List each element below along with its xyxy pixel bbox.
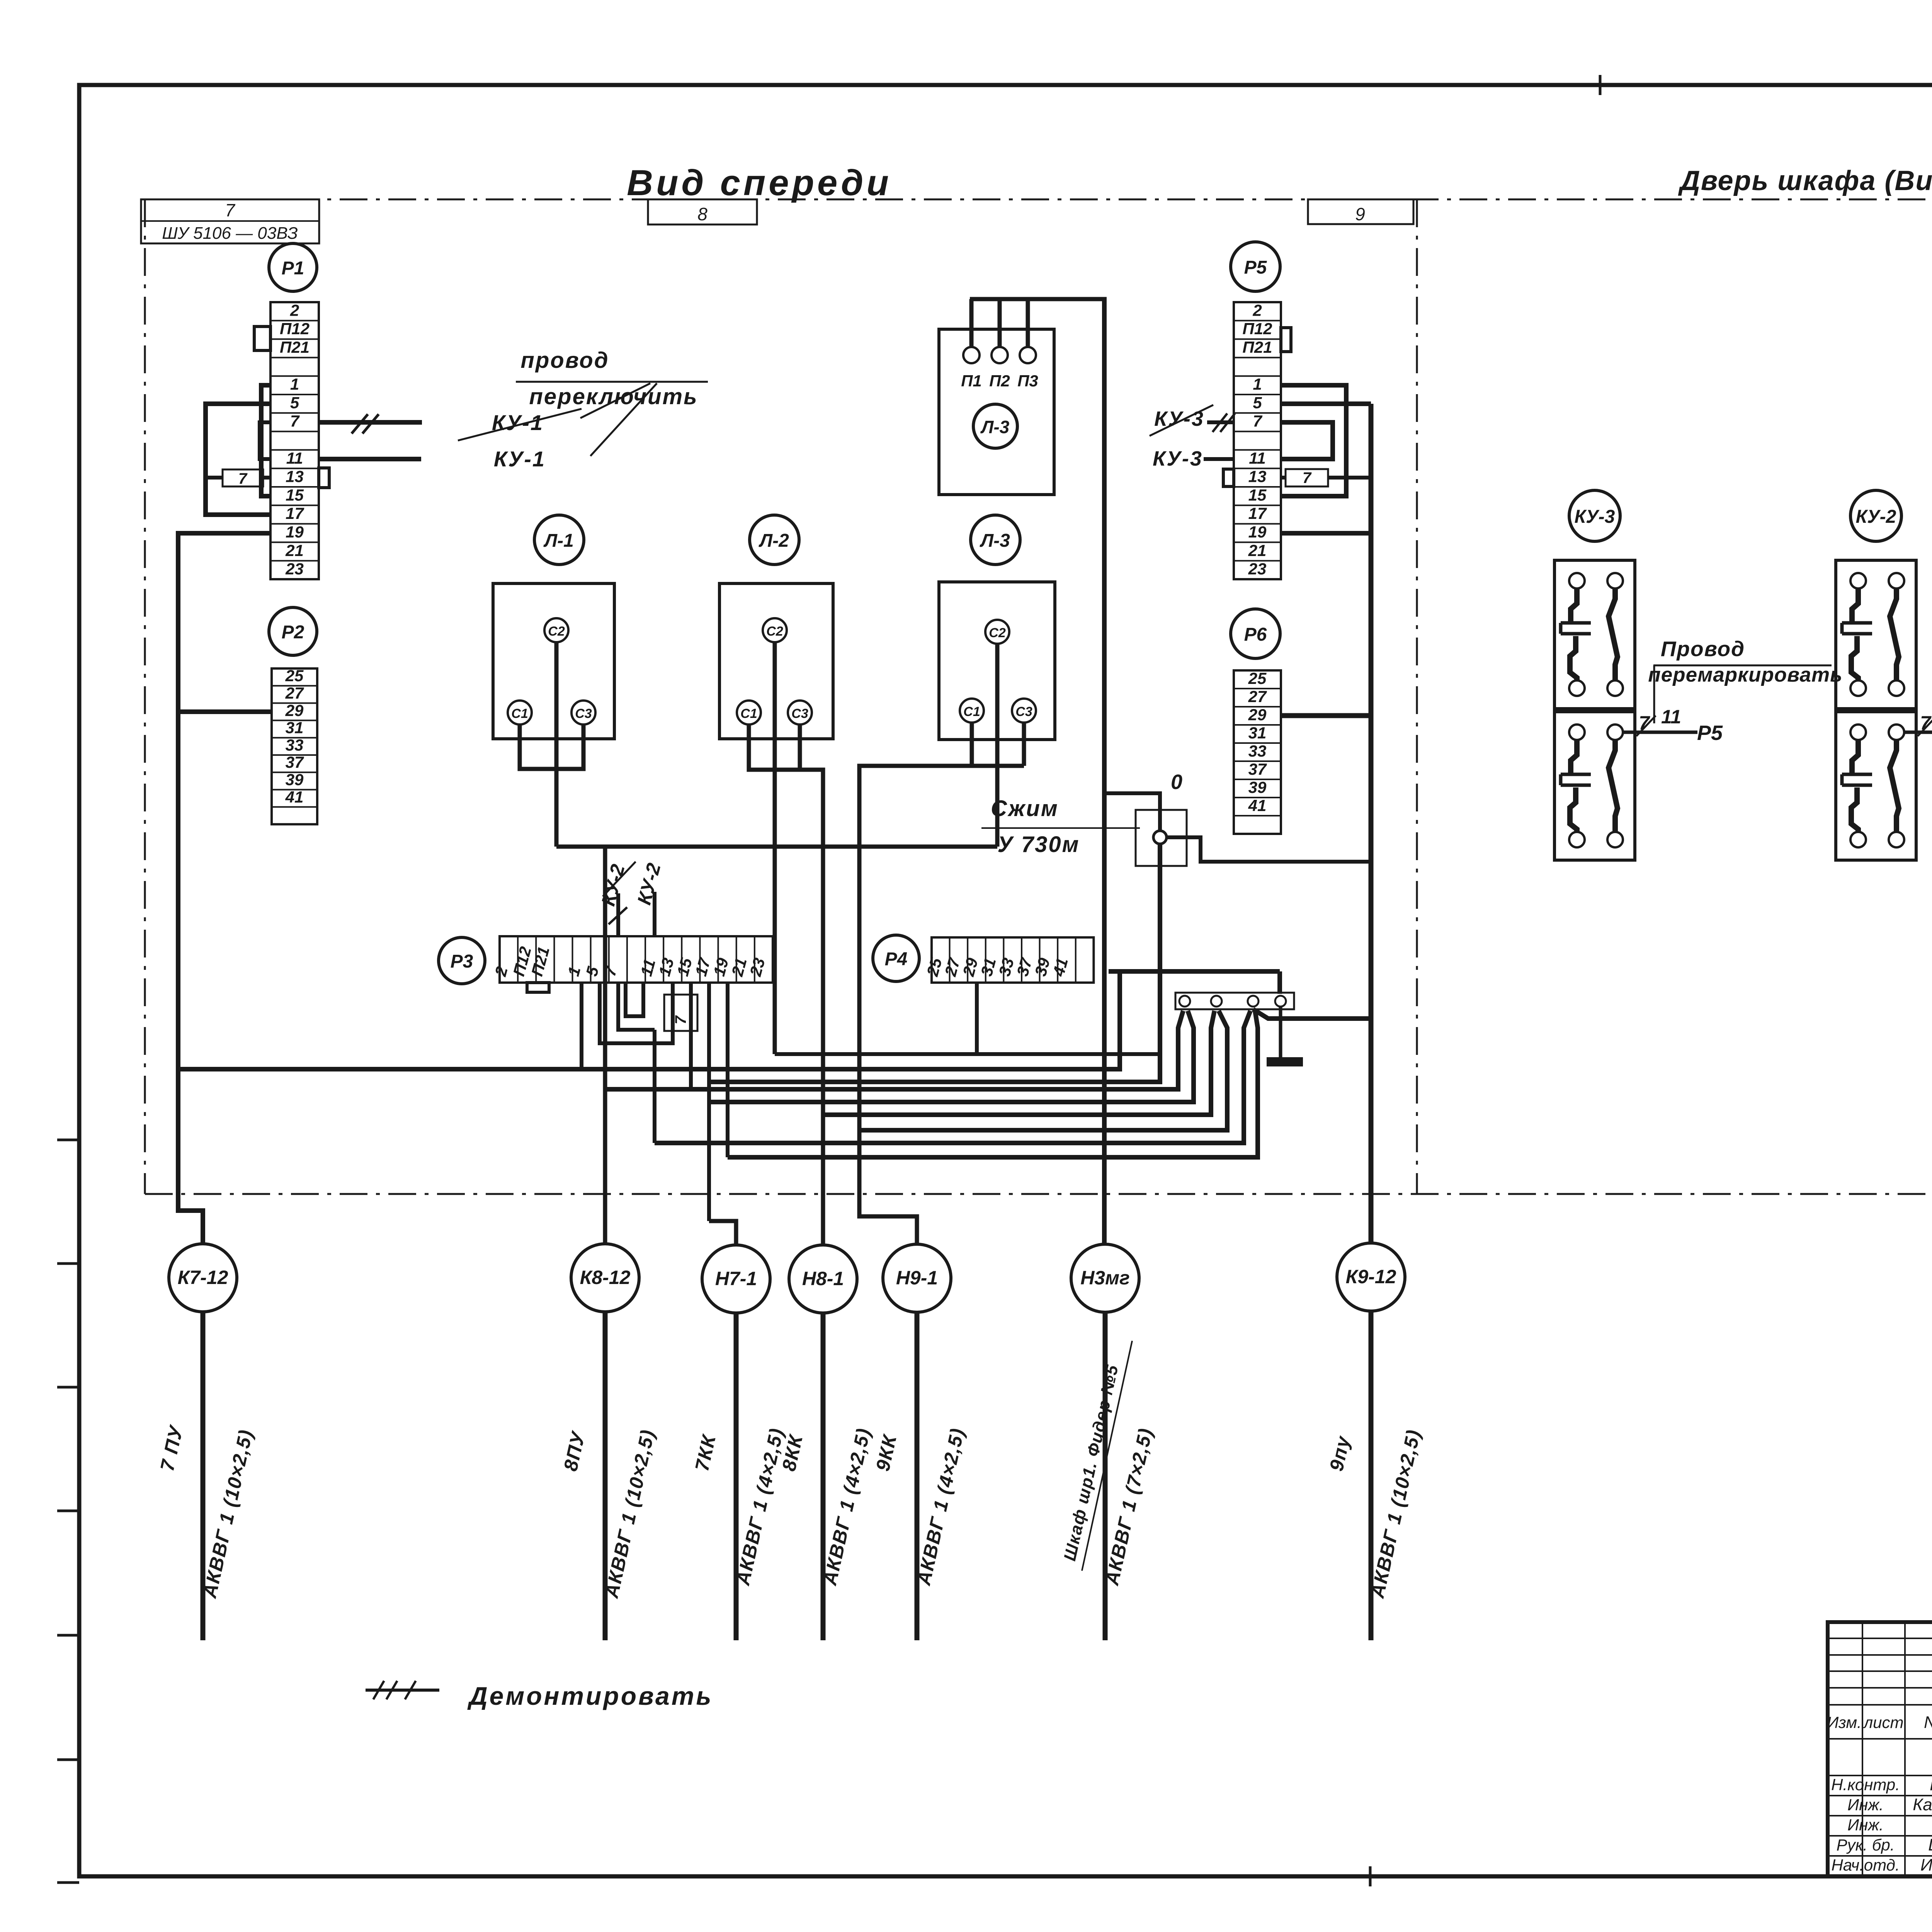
svg-text:С3: С3 (575, 706, 592, 721)
svg-text:С1: С1 (511, 706, 528, 721)
svg-text:П21: П21 (1243, 338, 1272, 356)
svg-text:11: 11 (1661, 706, 1681, 728)
svg-text:С1: С1 (963, 704, 980, 719)
svg-text:Рук. бр.: Рук. бр. (1837, 1836, 1895, 1854)
svg-text:С3: С3 (1015, 704, 1032, 719)
svg-text:Н8-1: Н8-1 (802, 1268, 844, 1289)
svg-text:Рохлин: Рохлин (1930, 1775, 1932, 1794)
svg-text:8: 8 (697, 204, 707, 224)
svg-text:Дверь шкафа (Вид сзади): Дверь шкафа (Вид сзади) (1678, 165, 1932, 196)
svg-text:Н.контр.: Н.контр. (1831, 1776, 1900, 1794)
svg-text:19: 19 (1248, 523, 1267, 541)
svg-text:Провод: Провод (1661, 637, 1745, 661)
svg-text:Р6: Р6 (1244, 624, 1267, 645)
svg-text:Инж.: Инж. (1847, 1816, 1884, 1834)
svg-text:1: 1 (290, 375, 299, 393)
svg-text:П2: П2 (989, 372, 1010, 390)
svg-text:N докум.: N докум. (1924, 1713, 1932, 1732)
svg-text:17: 17 (286, 504, 304, 522)
svg-text:41: 41 (1248, 796, 1267, 815)
svg-text:13: 13 (286, 468, 304, 486)
svg-text:КУ-3: КУ-3 (1154, 407, 1204, 430)
svg-text:С1: С1 (740, 706, 757, 721)
svg-text:Иваненко: Иваненко (1920, 1855, 1932, 1874)
svg-text:Н3мг: Н3мг (1080, 1267, 1130, 1289)
svg-text:Шульга: Шульга (1928, 1835, 1932, 1854)
svg-text:31: 31 (286, 719, 304, 737)
svg-text:П21: П21 (280, 338, 310, 356)
svg-text:21: 21 (285, 541, 304, 560)
svg-text:КУ-1: КУ-1 (494, 447, 546, 471)
svg-text:27: 27 (285, 684, 304, 702)
svg-text:2: 2 (290, 301, 299, 319)
svg-text:29: 29 (1248, 706, 1267, 724)
svg-text:Р4: Р4 (885, 949, 908, 969)
svg-text:11: 11 (286, 449, 303, 467)
svg-text:37: 37 (1248, 760, 1267, 778)
svg-text:1: 1 (1253, 375, 1262, 393)
svg-text:Р2: Р2 (282, 622, 304, 643)
svg-text:Демонтировать: Демонтировать (467, 1682, 713, 1710)
svg-text:КУ-2: КУ-2 (1856, 507, 1896, 527)
svg-text:Вид спереди: Вид спереди (627, 162, 892, 203)
svg-text:29: 29 (285, 701, 304, 719)
svg-text:31: 31 (1248, 724, 1267, 742)
svg-text:КУ-3: КУ-3 (1575, 507, 1615, 527)
svg-text:П3: П3 (1017, 372, 1038, 390)
svg-text:41: 41 (285, 788, 304, 806)
svg-text:7: 7 (225, 200, 235, 220)
svg-text:Карагозова: Карагозова (1913, 1795, 1932, 1814)
svg-text:С2: С2 (766, 624, 783, 639)
svg-text:7: 7 (238, 470, 248, 487)
svg-text:К8-12: К8-12 (580, 1267, 631, 1288)
svg-text:Л-1: Л-1 (543, 531, 574, 551)
svg-text:перемаркировать: перемаркировать (1648, 663, 1842, 686)
svg-text:19: 19 (286, 523, 304, 541)
svg-text:7: 7 (1303, 469, 1312, 486)
svg-text:С3: С3 (791, 706, 808, 721)
svg-text:33: 33 (1248, 742, 1267, 760)
svg-text:Р5: Р5 (1697, 721, 1723, 745)
svg-text:Н7-1: Н7-1 (715, 1268, 757, 1289)
svg-text:П1: П1 (961, 372, 982, 390)
svg-text:С2: С2 (989, 626, 1006, 640)
svg-text:25: 25 (1248, 669, 1267, 687)
svg-text:25: 25 (285, 667, 304, 685)
svg-text:ШУ 5106 — 03ВЗ: ШУ 5106 — 03ВЗ (162, 224, 298, 243)
svg-text:провод: провод (520, 348, 609, 373)
svg-text:лист: лист (1862, 1713, 1903, 1731)
svg-text:13: 13 (1248, 468, 1267, 486)
svg-text:У 730м: У 730м (997, 832, 1080, 857)
svg-text:2: 2 (1252, 301, 1262, 319)
svg-text:Р1: Р1 (282, 258, 304, 279)
svg-text:П12: П12 (1243, 320, 1272, 338)
svg-text:Л-2: Л-2 (759, 531, 789, 551)
svg-text:КУ-3: КУ-3 (1153, 447, 1203, 470)
svg-text:23: 23 (1248, 560, 1267, 578)
svg-text:37: 37 (286, 753, 304, 771)
svg-text:33: 33 (286, 736, 304, 754)
svg-text:Инж.: Инж. (1847, 1796, 1884, 1814)
svg-text:Изм.: Изм. (1827, 1713, 1862, 1731)
svg-text:К7-12: К7-12 (178, 1267, 228, 1288)
svg-text:К9-12: К9-12 (1346, 1266, 1396, 1287)
svg-text:С2: С2 (548, 624, 565, 639)
svg-text:0: 0 (1171, 770, 1182, 794)
svg-text:11: 11 (1249, 449, 1266, 467)
svg-text:Р3: Р3 (451, 951, 473, 972)
svg-text:Л-3: Л-3 (980, 531, 1010, 551)
svg-text:Л-3: Л-3 (980, 417, 1010, 437)
svg-text:9: 9 (1355, 204, 1365, 224)
svg-text:7: 7 (672, 1015, 689, 1024)
svg-text:переключить: переключить (529, 384, 698, 409)
svg-text:7: 7 (290, 412, 300, 430)
svg-text:Р5: Р5 (1244, 257, 1267, 278)
svg-text:5: 5 (290, 393, 299, 412)
svg-text:КУ-1: КУ-1 (492, 410, 544, 435)
svg-text:27: 27 (1248, 687, 1267, 706)
svg-text:Н9-1: Н9-1 (896, 1267, 938, 1289)
svg-text:21: 21 (1248, 541, 1267, 560)
svg-text:17: 17 (1248, 504, 1267, 522)
svg-text:П12: П12 (280, 320, 310, 338)
svg-text:39: 39 (1248, 778, 1267, 796)
svg-text:Нач.отд.: Нач.отд. (1831, 1856, 1900, 1874)
svg-text:15: 15 (1248, 486, 1267, 504)
svg-text:15: 15 (286, 486, 304, 504)
svg-text:23: 23 (285, 560, 304, 578)
svg-text:5: 5 (1253, 393, 1262, 412)
svg-text:7: 7 (1253, 412, 1262, 430)
svg-text:Сжим: Сжим (991, 796, 1059, 821)
svg-text:39: 39 (286, 770, 304, 789)
